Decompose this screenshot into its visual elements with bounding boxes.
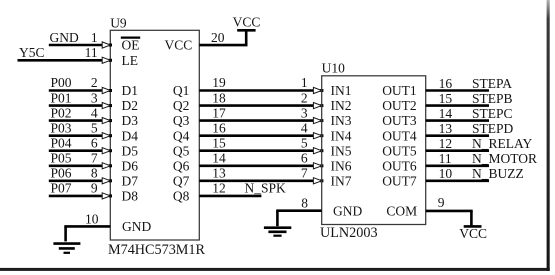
svg-text:OUT7: OUT7 xyxy=(382,173,417,188)
wire OUT5 to net N_RELAY xyxy=(426,149,489,152)
svg-text:D7: D7 xyxy=(122,173,139,188)
svg-text:Q6: Q6 xyxy=(173,158,190,173)
svg-text:P02: P02 xyxy=(51,105,72,120)
svg-text:5: 5 xyxy=(91,120,98,135)
input arrow U9 pin 6 xyxy=(109,149,112,152)
wire OUT6 to net N_MOTOR xyxy=(426,165,489,168)
svg-text:OUT5: OUT5 xyxy=(382,143,417,158)
svg-text:N_MOTOR: N_MOTOR xyxy=(472,151,537,166)
wire OUT2 to net STEPB xyxy=(426,104,489,107)
wire Q5 to IN5 xyxy=(199,149,313,152)
svg-text:6: 6 xyxy=(91,135,98,150)
svg-text:Q4: Q4 xyxy=(173,128,190,143)
svg-text:9: 9 xyxy=(91,181,98,196)
svg-text:18: 18 xyxy=(212,90,226,105)
svg-text:OUT3: OUT3 xyxy=(382,113,417,128)
svg-text:STEPD: STEPD xyxy=(472,121,514,136)
svg-text:D3: D3 xyxy=(122,113,139,128)
svg-text:OUT2: OUT2 xyxy=(382,98,417,113)
svg-text:20: 20 xyxy=(211,30,225,45)
power symbol VCC (bottom) xyxy=(459,226,487,241)
svg-text:IN5: IN5 xyxy=(331,143,352,158)
svg-text:3: 3 xyxy=(91,90,98,105)
IC U10 driver body xyxy=(322,76,426,225)
svg-text:8: 8 xyxy=(91,166,98,181)
svg-text:16: 16 xyxy=(439,76,453,91)
svg-text:VCC: VCC xyxy=(165,37,193,52)
svg-text:U9: U9 xyxy=(110,15,127,30)
svg-text:6: 6 xyxy=(301,151,308,166)
svg-text:19: 19 xyxy=(212,75,226,90)
svg-text:GND: GND xyxy=(122,219,151,234)
svg-text:Q3: Q3 xyxy=(173,113,190,128)
svg-text:P00: P00 xyxy=(51,75,72,90)
input arrow U9 pin 3 xyxy=(109,104,112,107)
input arrow U10 pin 2 xyxy=(320,104,323,107)
svg-text:Y5C: Y5C xyxy=(19,45,45,60)
svg-text:IN1: IN1 xyxy=(331,83,352,98)
wire P06 to U9 D7 xyxy=(49,180,103,183)
svg-text:VCC: VCC xyxy=(233,14,261,29)
svg-text:15: 15 xyxy=(439,91,453,106)
input arrow U9 pin 5 xyxy=(109,134,112,137)
svg-text:ULN2003: ULN2003 xyxy=(320,225,378,241)
wire P03 to U9 D4 xyxy=(49,134,103,137)
svg-text:14: 14 xyxy=(212,151,226,166)
svg-text:GND: GND xyxy=(333,203,362,218)
svg-text:Q5: Q5 xyxy=(173,143,190,158)
svg-text:D5: D5 xyxy=(122,143,139,158)
svg-text:STEPC: STEPC xyxy=(472,106,513,121)
input arrow U10 pin 7 xyxy=(320,179,323,182)
wire P01 to U9 D2 xyxy=(49,104,103,107)
input arrow U9 pin 7 xyxy=(109,164,112,167)
ground symbol (U9) xyxy=(53,244,80,253)
wire Y5C to U9 pin11 xyxy=(18,59,103,62)
svg-text:5: 5 xyxy=(301,135,308,150)
svg-text:COM: COM xyxy=(386,203,417,218)
wire U9 pin10 to ground xyxy=(64,225,110,228)
wire P07 to U9 D8 xyxy=(49,195,103,198)
wire Q3 to IN3 xyxy=(199,119,313,122)
wire Q8 to net N_SPK xyxy=(199,195,261,198)
svg-text:Q8: Q8 xyxy=(173,189,190,204)
IC U9 latch body xyxy=(110,30,199,240)
svg-text:10: 10 xyxy=(85,211,99,226)
wire Q6 to IN6 xyxy=(199,165,313,168)
wire OUT3 to net STEPC xyxy=(426,119,489,122)
svg-text:11: 11 xyxy=(439,151,452,166)
svg-text:IN2: IN2 xyxy=(331,98,352,113)
svg-text:7: 7 xyxy=(91,151,98,166)
wire P05 to U9 D6 xyxy=(49,165,103,168)
svg-text:IN3: IN3 xyxy=(331,113,352,128)
svg-text:1: 1 xyxy=(301,75,308,90)
wire P04 to U9 D5 xyxy=(49,149,103,152)
svg-text:IN6: IN6 xyxy=(331,158,352,173)
wire OUT1 to net STEPA xyxy=(426,89,489,92)
svg-text:2: 2 xyxy=(91,75,98,90)
svg-text:10: 10 xyxy=(439,166,453,181)
svg-text:OUT4: OUT4 xyxy=(382,128,417,143)
svg-text:Q7: Q7 xyxy=(173,173,190,188)
svg-text:OUT1: OUT1 xyxy=(382,83,417,98)
svg-text:12: 12 xyxy=(212,181,226,196)
svg-text:D2: D2 xyxy=(122,98,139,113)
wire Q4 to IN4 xyxy=(199,134,313,137)
svg-text:LE: LE xyxy=(122,53,139,68)
input arrow U10 pin 1 xyxy=(320,89,323,92)
wire P00 to U9 D1 xyxy=(49,89,103,92)
svg-text:Q2: Q2 xyxy=(173,98,190,113)
svg-text:IN4: IN4 xyxy=(331,128,352,143)
svg-text:16: 16 xyxy=(212,120,226,135)
svg-text:4: 4 xyxy=(301,120,308,135)
svg-text:11: 11 xyxy=(85,45,98,60)
svg-text:OUT6: OUT6 xyxy=(382,158,417,173)
wire GND to U9 pin1 xyxy=(49,44,103,47)
svg-text:D6: D6 xyxy=(122,158,139,173)
wire U10 pin8 to ground xyxy=(276,209,322,212)
svg-text:3: 3 xyxy=(301,105,308,120)
input arrow U10 pin 4 xyxy=(320,134,323,137)
wire Q2 to IN2 xyxy=(199,104,313,107)
svg-text:N_BUZZ: N_BUZZ xyxy=(472,166,524,181)
U9 pin 1 OE (active low) with overline xyxy=(121,37,140,52)
svg-text:P07: P07 xyxy=(51,181,72,196)
input arrow U9 pin 4 xyxy=(109,119,112,122)
svg-text:M74HC573M1R: M74HC573M1R xyxy=(108,242,206,258)
wire P02 to U9 D3 xyxy=(49,119,103,122)
svg-text:9: 9 xyxy=(438,195,445,210)
input arrow U9 pin 9 xyxy=(109,194,112,197)
svg-text:P01: P01 xyxy=(51,90,72,105)
svg-text:4: 4 xyxy=(91,105,98,120)
svg-text:13: 13 xyxy=(439,121,453,136)
svg-text:P06: P06 xyxy=(51,166,72,181)
svg-text:STEPA: STEPA xyxy=(472,76,512,91)
svg-text:D8: D8 xyxy=(122,189,139,204)
input arrow U9 pin 2 xyxy=(109,89,112,92)
wire U9 pin20 to VCC symbol xyxy=(199,44,247,47)
svg-text:P04: P04 xyxy=(51,135,72,150)
input arrow U10 pin 6 xyxy=(320,164,323,167)
svg-text:VCC: VCC xyxy=(459,226,487,241)
svg-text:12: 12 xyxy=(439,136,453,151)
svg-text:13: 13 xyxy=(212,166,226,181)
svg-text:GND: GND xyxy=(50,30,79,45)
svg-text:Q1: Q1 xyxy=(173,83,190,98)
svg-text:U10: U10 xyxy=(322,61,345,76)
input arrow U10 pin 3 xyxy=(320,119,323,122)
svg-text:8: 8 xyxy=(301,195,308,210)
ground symbol (U10) xyxy=(264,228,291,236)
input arrow U9 pin11 xyxy=(109,59,112,62)
input arrow U10 pin 5 xyxy=(320,149,323,152)
wire U10 pin9 COM to VCC symbol xyxy=(426,210,473,213)
wire Q7 to IN7 xyxy=(199,180,313,183)
svg-text:STEPB: STEPB xyxy=(472,91,513,106)
input arrow U9 pin 8 xyxy=(109,179,112,182)
svg-text:7: 7 xyxy=(301,166,308,181)
svg-text:17: 17 xyxy=(212,105,226,120)
svg-text:OE: OE xyxy=(122,37,140,52)
input arrow U9 pin1 xyxy=(109,44,112,47)
wire OUT4 to net STEPD xyxy=(426,134,489,137)
svg-text:14: 14 xyxy=(439,106,453,121)
wire OUT7 to net N_BUZZ xyxy=(426,180,489,183)
svg-text:N_SPK: N_SPK xyxy=(245,181,287,196)
svg-text:N_RELAY: N_RELAY xyxy=(472,136,533,151)
svg-text:1: 1 xyxy=(91,30,98,45)
svg-text:P03: P03 xyxy=(51,120,72,135)
svg-text:2: 2 xyxy=(301,90,308,105)
svg-text:D4: D4 xyxy=(122,128,139,143)
svg-text:D1: D1 xyxy=(122,83,139,98)
svg-text:15: 15 xyxy=(212,135,226,150)
power symbol VCC (top) xyxy=(233,14,261,30)
svg-text:P05: P05 xyxy=(51,151,72,166)
wire Q1 to IN1 xyxy=(199,89,313,92)
svg-text:IN7: IN7 xyxy=(331,173,352,188)
